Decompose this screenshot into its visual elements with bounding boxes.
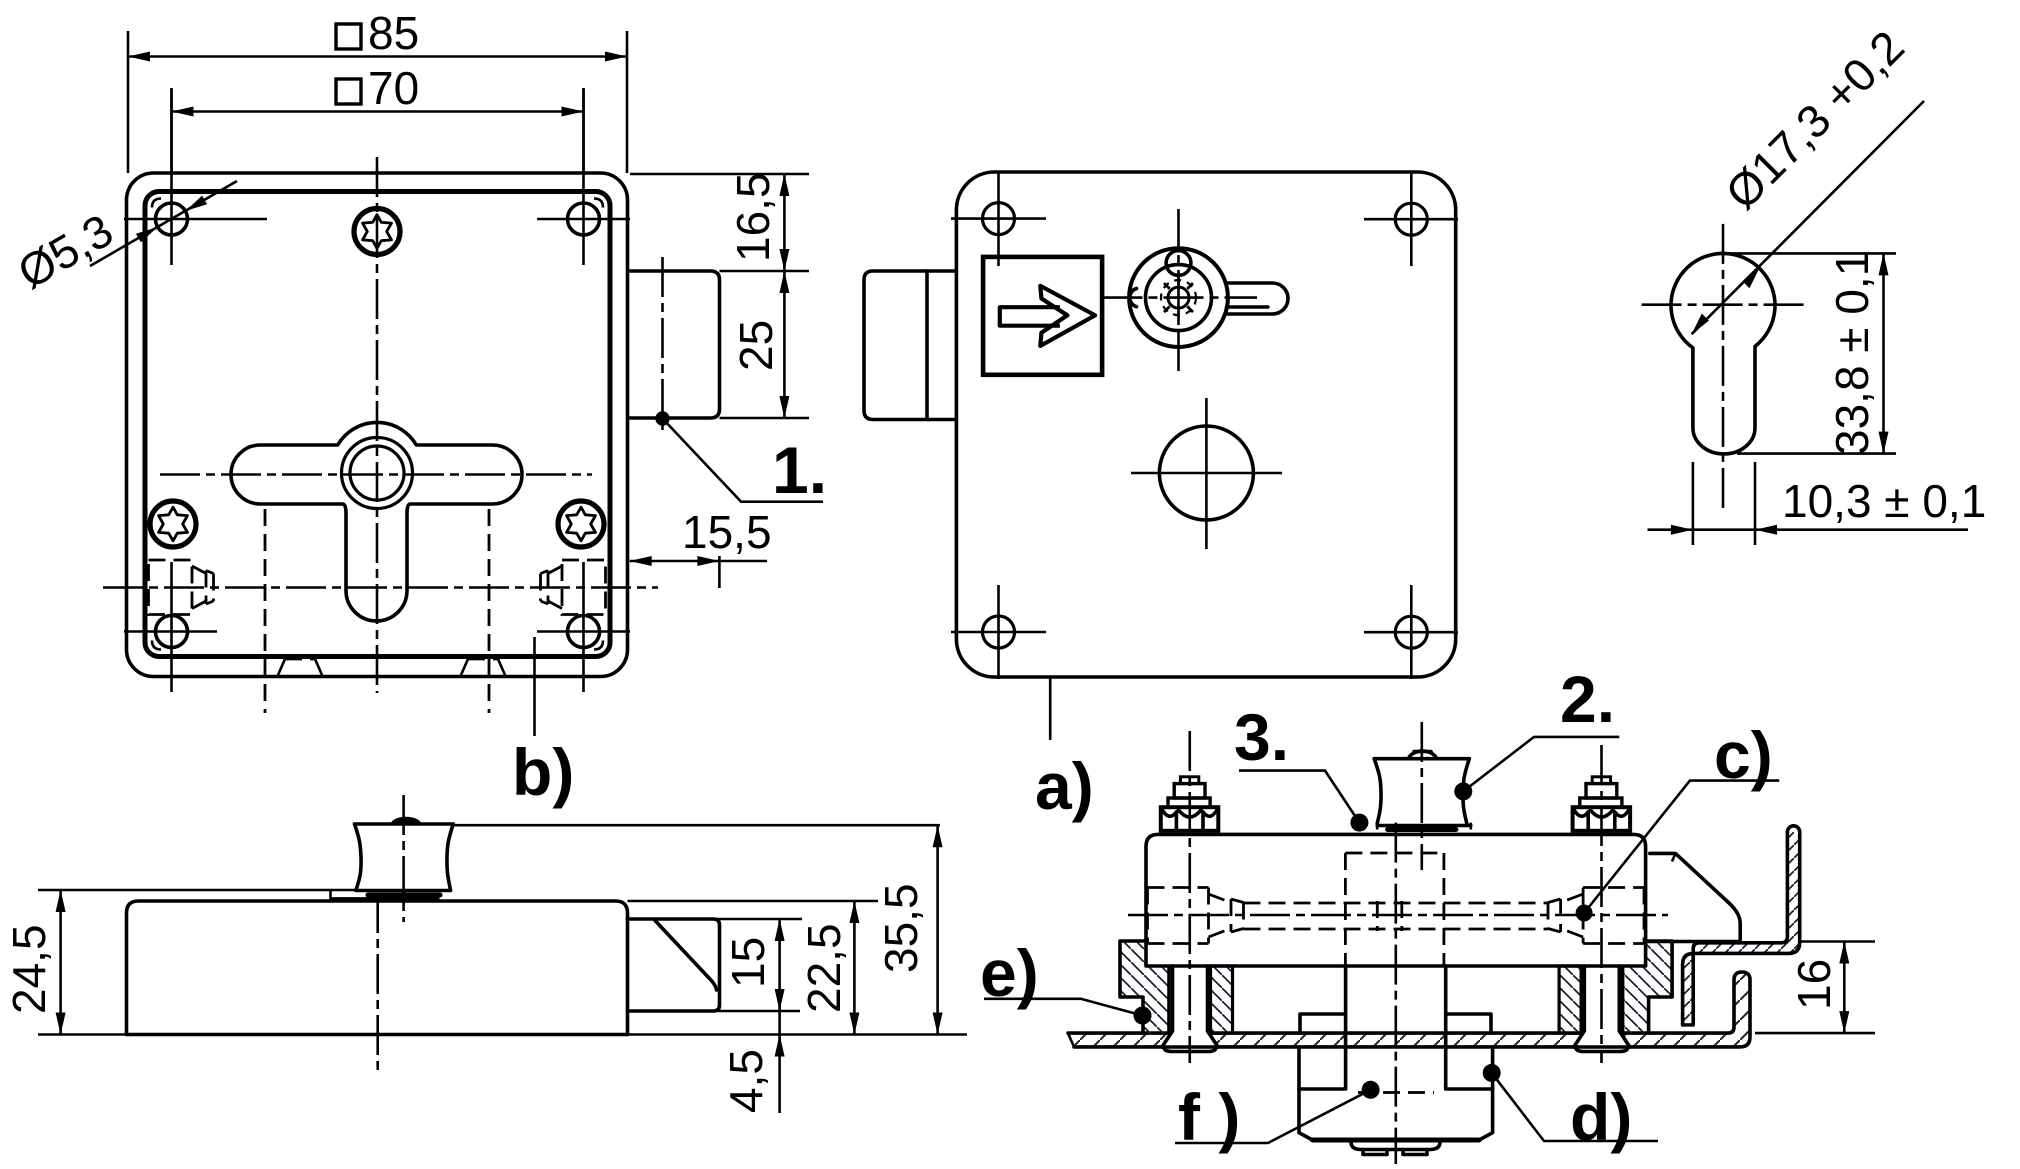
roller seat lines — [38, 889, 355, 892]
mounting plate hatched — [1068, 972, 1750, 1047]
keyhole circles — [342, 438, 413, 509]
hole bottom-left — [983, 616, 1015, 648]
bar center line horizontal — [1128, 914, 1668, 917]
body center line — [376, 893, 379, 1073]
svg-text:16: 16 — [1788, 959, 1840, 1010]
bolt axis — [1395, 823, 1398, 1164]
dimension 24,5 — [59, 890, 62, 1035]
keeper ramp — [1650, 853, 1740, 941]
bottom line — [38, 1033, 967, 1036]
dimension dia 5,3 leader — [90, 181, 237, 266]
svg-text:e): e) — [980, 936, 1039, 1010]
latch center line — [661, 257, 664, 430]
latch bevel — [655, 921, 717, 991]
cylinder torx recess — [1161, 278, 1196, 318]
label b) with leader — [533, 637, 536, 736]
svg-text:25: 25 — [730, 320, 782, 371]
roller — [355, 824, 454, 890]
label 2. with leader — [1454, 782, 1472, 800]
svg-text:16,5: 16,5 — [727, 172, 779, 262]
dimension 35,5 — [936, 825, 939, 1034]
torx screw bottom-right — [558, 501, 604, 547]
countersunk screw right — [1574, 966, 1630, 1047]
bottom nut — [1299, 1048, 1493, 1140]
dimension 10,3 — [1693, 462, 1755, 545]
latch bolt view1 — [629, 271, 720, 418]
dimension 33,8 — [1730, 253, 1896, 453]
svg-text:24,5: 24,5 — [3, 924, 55, 1014]
hidden hex feature right — [541, 560, 606, 615]
hidden hex feature left — [149, 560, 214, 615]
svg-text:85: 85 — [368, 7, 419, 59]
svg-text:d): d) — [1570, 1080, 1632, 1154]
dimension 16,5 — [630, 174, 809, 271]
svg-text:10,3 ± 0,1: 10,3 ± 0,1 — [1782, 475, 1986, 527]
crosshair bottom-left hole — [124, 562, 217, 692]
body outline — [127, 901, 628, 1035]
latch face line — [925, 271, 929, 420]
latch side view — [628, 919, 720, 1011]
cylinder center lines — [1103, 296, 1258, 299]
svg-text:2.: 2. — [1560, 662, 1615, 736]
label 3. with leader — [1350, 814, 1368, 832]
main bar — [1146, 834, 1646, 966]
roller axis — [1421, 722, 1424, 870]
mounting hole top-left — [156, 203, 188, 235]
arrow symbol square — [983, 257, 1102, 375]
profile outline — [1671, 253, 1775, 454]
svg-text:70: 70 — [368, 62, 419, 114]
svg-text:4,5: 4,5 — [720, 1049, 772, 1113]
label e) with leader — [1134, 1007, 1152, 1025]
spacer block D hatched — [1623, 941, 1673, 1033]
dimension 25 — [783, 271, 786, 418]
spacer block A hatched (e) — [1120, 941, 1169, 1033]
svg-text:15,5: 15,5 — [682, 506, 772, 558]
latch bolt view2 — [864, 271, 956, 420]
svg-text:f ): f ) — [1178, 1080, 1240, 1154]
center line horizontal lower — [103, 586, 658, 589]
dimension 85 — [128, 31, 627, 173]
svg-text:22,5: 22,5 — [798, 923, 850, 1013]
roller section — [1374, 759, 1469, 824]
dimension 16 — [1755, 942, 1875, 1034]
label f) with leader — [1362, 1081, 1380, 1099]
svg-text:a): a) — [1035, 749, 1094, 823]
top reference line — [453, 824, 940, 827]
hole top-left — [983, 203, 1015, 235]
bolt sleeve below bar — [1346, 966, 1446, 1089]
hidden line vertical right — [488, 509, 491, 713]
dimension 15 and 4,5 — [631, 919, 802, 1011]
hidden screw hole left — [1148, 888, 1244, 944]
nut assembly right — [1573, 745, 1631, 1063]
hidden line vertical left — [264, 509, 267, 713]
crosshair bottom-right hole — [537, 562, 630, 692]
svg-text:1.: 1. — [772, 433, 827, 507]
bolt tip below nut — [1351, 1140, 1440, 1150]
crosshair top-left hole — [124, 89, 267, 265]
body outline — [956, 172, 1455, 677]
svg-text:3.: 3. — [1234, 700, 1289, 774]
torx screw bottom-left — [150, 501, 196, 547]
roller screw head — [391, 817, 421, 823]
dia 17,3 leader — [1692, 101, 1924, 334]
cylinder outer circle — [1129, 248, 1228, 347]
countersink mark bottom-left — [278, 659, 322, 675]
svg-text:b): b) — [512, 735, 574, 809]
dimension 15,5 — [718, 556, 721, 588]
bracket hatched — [1683, 832, 1800, 1025]
center line vertical view1 — [376, 157, 379, 693]
cylinder left bump — [1130, 289, 1137, 307]
mounting hole bottom-left — [156, 616, 188, 648]
spacer block C hatched — [1559, 966, 1581, 1033]
countersunk screw left — [1162, 966, 1218, 1047]
lower hole circle — [1159, 426, 1253, 520]
hidden hole horizontals — [1244, 903, 1549, 929]
roller axis line — [402, 795, 405, 922]
bolt shoulder rectangles on plate — [1300, 1014, 1491, 1033]
cylinder pin circle — [1166, 251, 1191, 276]
mounting hole bottom-right — [568, 616, 600, 648]
svg-text:c): c) — [1714, 718, 1773, 792]
label a) with leader — [1049, 678, 1052, 740]
nut assembly left — [1161, 731, 1219, 1063]
center line horizontal keyhole — [160, 473, 592, 476]
arrow symbol — [1000, 307, 1060, 326]
center lines — [1642, 303, 1805, 306]
label c) with leader — [1576, 905, 1593, 922]
roller screw dome — [1408, 751, 1436, 759]
body inner thick outline — [145, 192, 610, 657]
key wing — [1227, 283, 1289, 314]
countersink mark bottom-right — [461, 659, 505, 675]
mounting hole top-right — [568, 203, 600, 235]
lower hole crosshair — [1131, 398, 1282, 549]
body outer outline — [127, 173, 628, 677]
svg-text:15: 15 — [722, 937, 774, 988]
dimension 22,5 — [628, 900, 879, 903]
spacer block B hatched — [1211, 966, 1233, 1033]
hole top-right — [1395, 203, 1427, 235]
svg-text:33,8 ± 0,1: 33,8 ± 0,1 — [1826, 251, 1878, 455]
label d) with leader — [1483, 1064, 1501, 1082]
svg-text:35,5: 35,5 — [875, 883, 927, 973]
hole bottom-right — [1395, 616, 1427, 648]
hidden bolt pocket — [1345, 853, 1444, 966]
label 1. with leader — [655, 411, 669, 425]
hidden screw hole right — [1548, 888, 1644, 944]
cylinder inner circle — [1146, 265, 1212, 331]
keyhole outline — [231, 422, 522, 621]
corner relief arcs — [152, 199, 161, 208]
torx screw top-center — [354, 209, 400, 255]
dimension 70 — [172, 88, 584, 173]
crosshair top-right hole — [537, 89, 630, 265]
